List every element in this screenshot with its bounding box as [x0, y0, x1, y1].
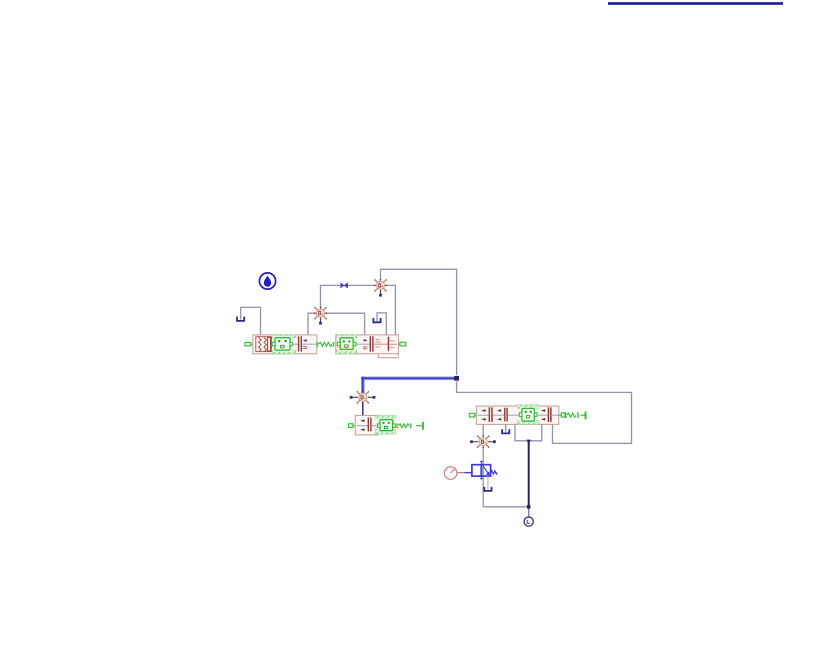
wire A3 loop ports	[515, 424, 542, 440]
flow control FC1	[314, 307, 327, 325]
pressure gauge G1	[444, 467, 464, 480]
wire FC2 right branch down to valve port	[385, 285, 395, 335]
supply line (pressurized, thick)	[363, 376, 457, 380]
wire J1 to loop top	[457, 380, 632, 443]
shut-off valve V1	[341, 283, 348, 288]
fluid source icon	[259, 273, 275, 289]
solenoid A1-S1	[272, 335, 296, 338]
wire tank T1 to valve pilot	[241, 307, 261, 338]
spring A3	[566, 413, 567, 417]
return line (thick)	[528, 442, 530, 510]
right spool A3	[537, 414, 548, 416]
solenoid A1-S2	[336, 335, 357, 338]
wire FC2 up and over to main junction	[381, 269, 457, 375]
valve body A3	[476, 406, 558, 424]
connector A3-right	[561, 413, 565, 417]
connector A3-left	[469, 413, 475, 417]
wire tank T2 to valve pilot	[377, 313, 386, 335]
tank T2	[373, 318, 380, 322]
wire FC3 to valve A2	[362, 402, 364, 416]
plug A2-right	[416, 425, 423, 427]
spool arrows A1-V2	[356, 343, 369, 345]
flow control FC3	[350, 391, 376, 404]
wire tank T3 stub	[505, 424, 507, 432]
proportional valve assembly A2 (middle)	[348, 416, 423, 435]
proportional valve assembly A3 (right)	[469, 405, 585, 425]
body lower lip A1	[378, 354, 398, 358]
wire FC1 cross line to valve ports	[308, 313, 365, 335]
wire RV1 bottom to J3	[483, 506, 527, 508]
solenoid A2	[375, 416, 396, 419]
spring A2	[397, 424, 398, 427]
sink node N1	[524, 517, 533, 526]
tank T1	[237, 317, 244, 321]
connector A2-left	[348, 424, 353, 428]
spring A1-Z1	[317, 343, 318, 346]
solenoid A3	[517, 405, 539, 409]
wire shut-off to FC2	[348, 284, 376, 286]
tank T4	[484, 487, 491, 491]
wire A3 port1 down through FC4	[482, 424, 484, 506]
tank T3	[502, 429, 509, 433]
connector A1-left	[245, 342, 251, 346]
valve body A1-V2	[336, 335, 399, 354]
junction J3	[527, 505, 530, 508]
wire J3 to sink	[528, 509, 530, 518]
connector A1-right	[400, 342, 406, 346]
flow control FC4	[470, 435, 496, 448]
spool bars A1	[293, 343, 298, 345]
valve body A2	[355, 416, 378, 435]
junction J1	[454, 376, 459, 381]
junction J2 with arrow	[527, 440, 531, 445]
proportional valve assembly A1 (left)	[245, 335, 406, 358]
title rule	[608, 2, 783, 5]
valve body A1-V1	[253, 335, 317, 354]
wire RV1 drain to tank T4	[487, 476, 489, 490]
wire FC1 riser to shut-off line	[321, 285, 341, 309]
spring A1 inner	[259, 338, 262, 352]
flow control FC2	[374, 279, 387, 297]
relief valve RV1 (selected)	[464, 461, 497, 478]
plug A3-right	[581, 414, 586, 416]
